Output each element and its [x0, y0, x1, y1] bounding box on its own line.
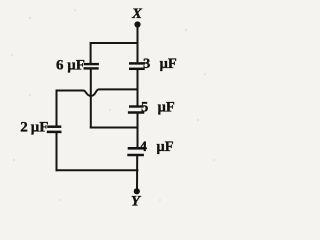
capacitor 5uF top plate	[129, 105, 144, 107]
capacitor 6uF top plate	[84, 63, 99, 65]
wire: bottom horizontal (2uF branch to node above Y)	[56, 169, 139, 171]
wire: 2uF bottom plate down to bottom wire	[56, 133, 58, 171]
wire: 6uF bottom plate down, crossing (no connection) hop region	[90, 69, 92, 128]
wire: 5uF bottom plate to 4uF top plate	[137, 114, 139, 148]
svg-text:5 μF: 5 μF	[141, 100, 175, 116]
capacitor 3uF bottom plate	[129, 68, 145, 71]
capacitor 4uF top plate	[128, 147, 145, 150]
node Y terminal dot	[134, 188, 140, 194]
capacitor 2uF bottom plate	[47, 131, 62, 134]
wire: 2uF branch vertical from crossing wire to 2uF top plate	[56, 90, 58, 126]
capacitor 4uF bottom plate	[127, 154, 144, 156]
svg-text:2 μF: 2 μF	[20, 120, 48, 136]
capacitor 6uF bottom plate	[84, 67, 99, 69]
node X terminal dot	[134, 21, 140, 27]
svg-text:6 μF: 6 μF	[56, 57, 85, 73]
wire: top branch horizontal (node X side to 6uF branch)	[90, 42, 139, 44]
svg-text:X: X	[131, 6, 143, 22]
capacitor 2uF top plate	[47, 125, 61, 128]
capacitor 3uF top plate	[129, 62, 145, 65]
wire: 6uF branch bottom horizontal to node between 5uF and 4uF	[90, 127, 139, 129]
wire: crossing horizontal with hop (2uF top to node between 3uF and 5uF)	[56, 89, 139, 96]
wire: X terminal down to 3uF top plate	[137, 24, 139, 62]
svg-text:4 μF: 4 μF	[140, 139, 174, 155]
wire: 6uF branch vertical from top wire to 6uF top plate	[90, 42, 92, 63]
svg-text:3 μF: 3 μF	[143, 56, 177, 72]
wire: 3uF bottom plate to 5uF top plate	[137, 70, 139, 106]
wire: 4uF bottom plate down to Y terminal	[136, 156, 138, 192]
capacitor 5uF bottom plate	[128, 111, 144, 114]
